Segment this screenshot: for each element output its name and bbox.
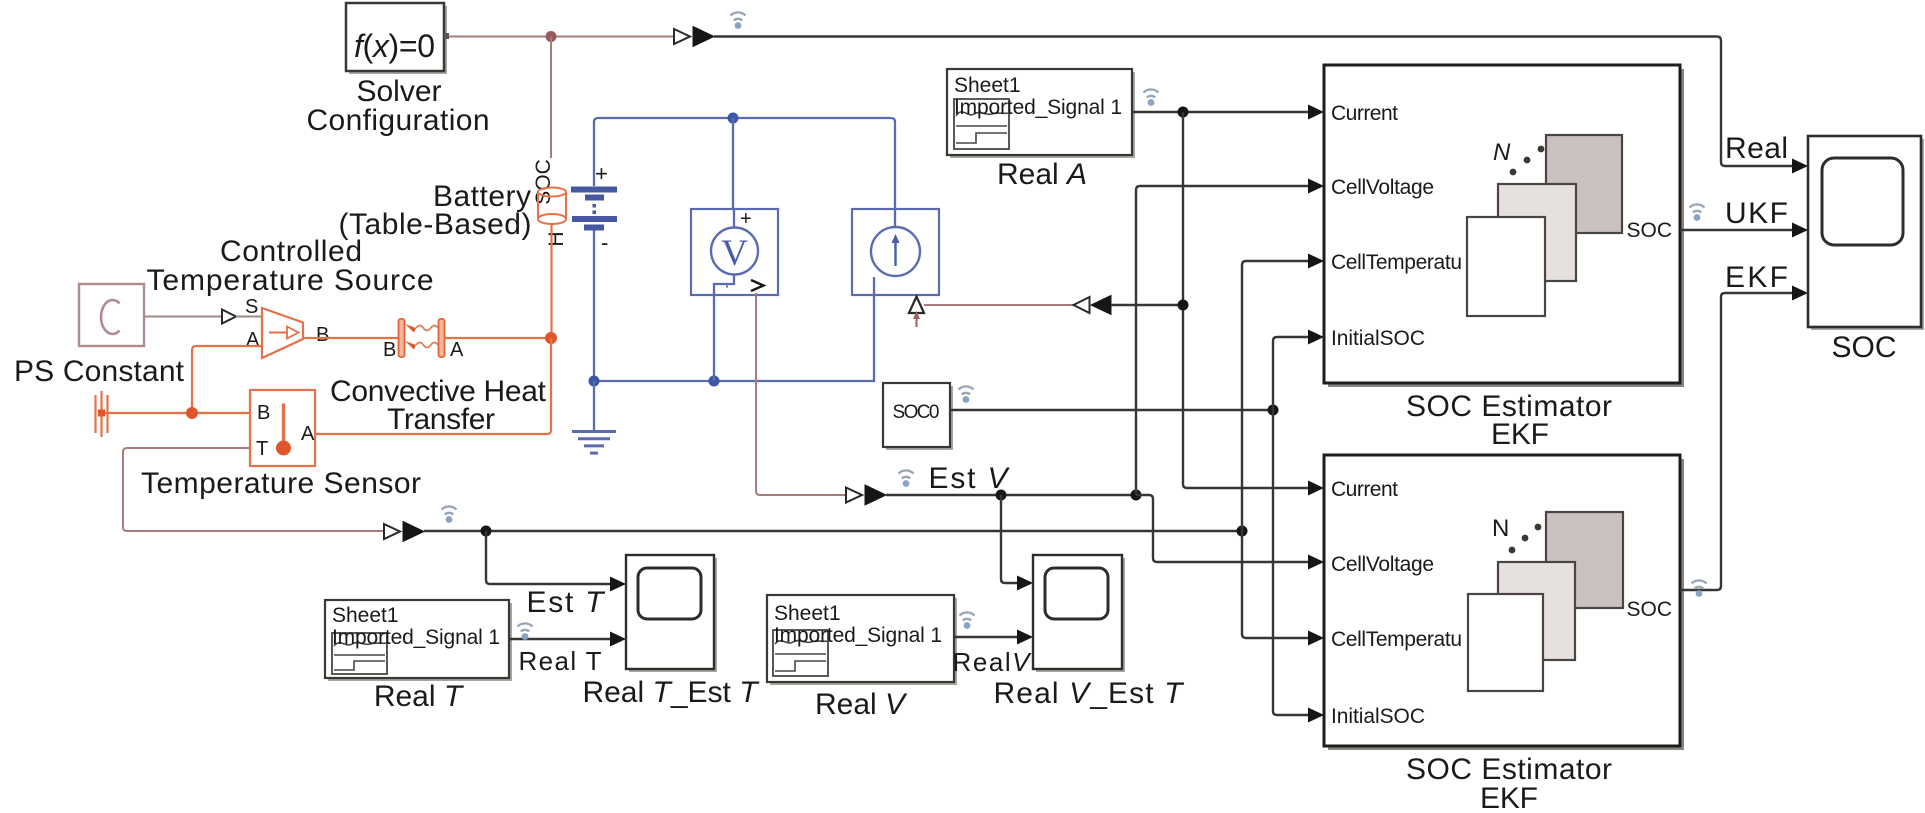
svg-text:Est T: Est T	[527, 586, 607, 619]
svg-text:Sheet1: Sheet1	[774, 602, 841, 625]
svg-text:CellTemperatu: CellTemperatu	[1331, 628, 1462, 651]
junction node: solver/battery SOC	[546, 31, 557, 42]
svg-text:V: V	[721, 233, 748, 274]
svg-text:PS Constant: PS Constant	[14, 355, 185, 388]
arrowhead scope EKF input	[1792, 286, 1808, 301]
wifi icon top wire	[731, 12, 746, 28]
junction Est V scope branch	[996, 490, 1007, 501]
svg-text:A: A	[301, 423, 315, 445]
Real A source block	[947, 69, 1135, 158]
wire: B port to convective (orange)	[303, 337, 399, 339]
wire: converter to SOC scope Real input (black)	[714, 37, 1793, 167]
wire: PS constant to S port (gray-maroon)	[144, 316, 222, 318]
wifi icon Real A	[1144, 89, 1159, 105]
junction thermal node at battery H	[545, 332, 557, 344]
Simulink-PS converter (control, pointing left)	[1074, 296, 1112, 315]
temperature sensor block	[250, 390, 315, 466]
wire: A port to thermal ref node (orange)	[192, 346, 262, 413]
svg-text:Temperature Sensor: Temperature Sensor	[141, 467, 421, 500]
wifi icon SOC0	[959, 386, 974, 402]
controlled temperature source block	[262, 308, 303, 358]
wire: Real V to scope	[954, 636, 1017, 638]
scope Real T_Est T	[626, 555, 717, 672]
wifi icon Real V signal	[960, 612, 975, 628]
blue bottom bus	[594, 295, 874, 381]
EKF pages icon middle	[1498, 562, 1575, 660]
wire: thermal node down to temp sensor A (orange)	[315, 338, 551, 434]
junction SOC0	[1268, 405, 1279, 416]
S port input arrowhead (open)	[222, 310, 236, 324]
wire: control black segment from Real A trunk	[1111, 304, 1183, 306]
wire: control maroon segment	[924, 304, 1073, 306]
svg-text:EKF: EKF	[1491, 418, 1549, 451]
svg-text:SOC: SOC	[1832, 331, 1897, 364]
svg-text:H: H	[545, 231, 568, 246]
wire: Real A to UKF Current	[1132, 111, 1309, 113]
svg-text:InitialSOC: InitialSOC	[1331, 705, 1425, 728]
svg-text:Sheet1: Sheet1	[332, 604, 399, 627]
EKF pages icon dark	[1546, 512, 1623, 608]
svg-text:N: N	[1493, 139, 1511, 166]
arrowhead EKF CellTemperature	[1308, 631, 1324, 646]
junction Est T to estimators	[1237, 526, 1248, 537]
svg-text:Current: Current	[1331, 478, 1398, 501]
svg-text:S: S	[245, 296, 258, 318]
PS Constant block	[79, 284, 144, 346]
arrowhead EKF Current	[1308, 481, 1324, 496]
wifi icon EKF output	[1692, 580, 1707, 596]
PS-Simulink converter (top)	[674, 27, 714, 47]
wire: UKF SOC output to scope UKF input	[1680, 229, 1793, 231]
EKF pages icon front	[1468, 594, 1543, 691]
current source block	[852, 209, 939, 295]
svg-text:CellVoltage: CellVoltage	[1331, 176, 1434, 199]
junction thermal ref node	[186, 407, 198, 419]
wire: convective A to thermal node (orange)	[445, 337, 552, 339]
svg-text:RealV: RealV	[953, 647, 1033, 677]
svg-text:SOC: SOC	[1626, 219, 1672, 242]
svg-text:SOC0: SOC0	[893, 402, 940, 423]
svg-text:Current: Current	[1331, 102, 1398, 125]
junction Real A trunk	[1178, 107, 1189, 118]
svg-text:SOC: SOC	[532, 159, 555, 205]
junction blue bottom left	[589, 376, 600, 387]
svg-text:Real T: Real T	[519, 646, 602, 676]
junction blue bottom mid	[709, 376, 720, 387]
PS-Simulink converter (Est T)	[384, 522, 424, 542]
wire: Real A trunk down to EKF Current	[1183, 112, 1309, 488]
svg-text:(Table-Based): (Table-Based)	[339, 208, 532, 241]
wire: Est V up to UKF estimator CellVoltage	[1136, 186, 1309, 495]
wire: Est T up to UKF estimator CellTemperature	[1242, 261, 1309, 531]
junction Est T branch	[481, 526, 492, 537]
wire: voltage sensor PS out to Est V converter (maroon)	[756, 293, 846, 495]
svg-text:Imported_Signal 1: Imported_Signal 1	[332, 626, 500, 649]
wire: battery bottom to bottom bus (blue)	[593, 231, 595, 382]
Real V source block	[767, 595, 957, 685]
wire: top bus down to voltage sensor	[732, 118, 734, 209]
svg-text:Real V_Est T: Real V_Est T	[994, 677, 1186, 710]
svg-text:A: A	[246, 329, 260, 351]
arrowhead scope UKF input	[1792, 223, 1808, 238]
svg-text:+: +	[740, 208, 752, 230]
arrowhead scope T bottom input	[610, 632, 626, 647]
SOC scope block	[1808, 136, 1924, 330]
dots (UKF)	[1510, 146, 1545, 176]
UKF pages icon front	[1467, 217, 1545, 316]
svg-text:B: B	[257, 402, 270, 424]
voltage sensor PS output chevron	[751, 280, 764, 291]
arrowhead UKF InitialSOC	[1308, 330, 1324, 345]
wire: Est T down to EKF estimator CellTemperature	[1242, 531, 1309, 638]
svg-text:UKF: UKF	[1725, 197, 1788, 230]
svg-text:Transfer: Transfer	[387, 403, 495, 436]
svg-text:EKF: EKF	[1725, 261, 1788, 294]
svg-text:A: A	[450, 339, 464, 361]
electrical ground	[572, 381, 616, 453]
svg-text:+: +	[595, 161, 608, 186]
svg-text:CellTemperatu: CellTemperatu	[1331, 251, 1462, 274]
svg-text:Real: Real	[1725, 132, 1788, 165]
wifi icon Real T signal	[518, 623, 533, 639]
wire: Est T trunk (black)	[424, 530, 1242, 532]
arrowhead EKF InitialSOC	[1308, 708, 1324, 723]
junction blue top bus	[728, 113, 739, 124]
UKF pages icon middle	[1498, 184, 1576, 281]
scope Real V_Est T	[1033, 555, 1125, 672]
svg-text:f(x)=0: f(x)=0	[354, 28, 435, 64]
thermal reference (three bars)	[96, 391, 108, 437]
wire: Est V to EKF estimator CellVoltage	[1136, 495, 1309, 562]
arrowhead UKF CellTemperature	[1308, 254, 1324, 269]
svg-text:Est V: Est V	[929, 462, 1011, 495]
SOC estimator EKF block	[1324, 455, 1684, 750]
wifi icon Est T	[442, 506, 457, 522]
convective heat transfer element	[399, 319, 445, 357]
wire: node down to battery SOC port (maroon)	[550, 37, 552, 159]
arrowhead scope V top input	[1017, 576, 1033, 591]
current source control port triangle	[909, 297, 924, 314]
svg-text:T: T	[256, 438, 268, 460]
battery block SOC port cylinder	[538, 188, 566, 225]
svg-text:Real T_Est T: Real T_Est T	[582, 676, 760, 709]
wifi icon UKF output	[1690, 204, 1705, 220]
svg-text:Configuration: Configuration	[307, 104, 490, 137]
svg-text:Imported_Signal 1: Imported_Signal 1	[774, 624, 942, 647]
wire: arrow to S port	[236, 316, 262, 318]
svg-text:Real T: Real T	[374, 680, 465, 713]
wire: EKF SOC output to scope EKF input	[1680, 293, 1793, 590]
wire: Est T to scope Real T_Est T	[486, 531, 610, 584]
wire: SOC0 down to EKF InitialSOC	[1273, 410, 1309, 715]
svg-text:InitialSOC: InitialSOC	[1331, 327, 1425, 350]
svg-text:B: B	[316, 324, 329, 346]
current source control arrow (maroon)	[913, 311, 920, 327]
junction Est V estimator branch	[1131, 490, 1142, 501]
solver configuration block f(x)=0	[346, 3, 449, 74]
wifi icon Est V	[899, 470, 914, 486]
wire: temp sensor T output to Est T converter (maroon)	[123, 448, 384, 531]
arrowhead UKF CellVoltage	[1308, 179, 1324, 194]
battery symbol plates (blue)	[571, 187, 617, 231]
dots (EKF)	[1509, 524, 1542, 554]
SOC0 block	[883, 383, 953, 450]
arrowhead scope T top input	[610, 577, 626, 592]
arrowhead Real input	[1792, 159, 1808, 174]
svg-text:N: N	[1492, 515, 1509, 542]
wire: Est V trunk (black)	[886, 494, 1136, 496]
svg-text:CellVoltage: CellVoltage	[1331, 553, 1434, 576]
wire: thermal ref to temperature sensor B (orange)	[105, 412, 250, 414]
SOC estimator UKF block	[1324, 65, 1684, 387]
wire: SOC0 up to UKF InitialSOC	[1273, 337, 1309, 410]
arrowhead scope V bottom input	[1017, 630, 1033, 645]
arrowhead EKF CellVoltage	[1308, 555, 1324, 570]
wire: solver output to PS-Simulink converter (maroon)	[449, 36, 674, 38]
svg-text:Sheet1: Sheet1	[954, 74, 1021, 97]
svg-text:EKF: EKF	[1480, 782, 1538, 813]
wire: battery H down to thermal node (orange)	[550, 225, 552, 339]
wire: voltage sensor bottom to bus (blue)	[713, 295, 715, 381]
wire: Real T to scope	[509, 638, 610, 640]
Real T source block	[325, 600, 512, 681]
wire: Est V down to scope Real V_Est T	[1001, 495, 1017, 583]
UKF pages icon dark	[1546, 135, 1622, 233]
wire: SOC0 to estimators InitialSOC trunk	[950, 409, 1273, 411]
voltage sensor block	[691, 209, 778, 295]
svg-text:-: -	[601, 230, 608, 255]
junction Real A control branch	[1178, 300, 1189, 311]
svg-text:Temperature Source: Temperature Source	[147, 264, 434, 297]
arrowhead UKF Current	[1308, 105, 1324, 120]
PS-Simulink converter (Est V)	[846, 485, 886, 505]
svg-text:SOC: SOC	[1626, 598, 1672, 621]
svg-text:Real V: Real V	[815, 688, 908, 721]
svg-text:Imported_Signal 1: Imported_Signal 1	[954, 96, 1122, 119]
svg-text:Real A: Real A	[997, 158, 1087, 191]
svg-text:B: B	[383, 339, 396, 361]
wire: battery top up and top bus (blue)	[594, 118, 895, 209]
